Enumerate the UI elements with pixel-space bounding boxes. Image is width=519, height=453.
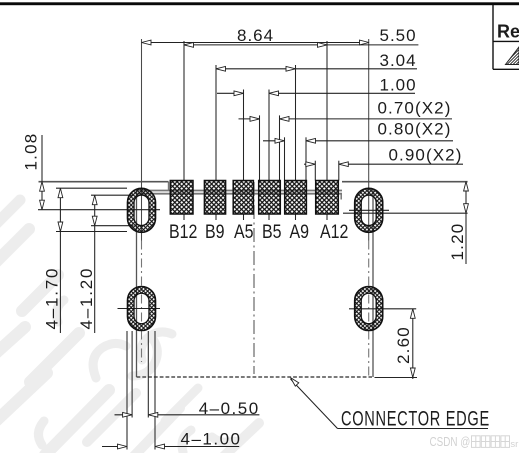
extension lines below lower-left hole — [127, 331, 155, 450]
pad A12 — [316, 181, 349, 243]
svg-text:A12: A12 — [320, 221, 348, 243]
svg-text:Rev: Rev — [497, 22, 519, 42]
pad A9 — [285, 181, 309, 243]
dimension 3.04 — [216, 51, 417, 71]
svg-text:4–1.70: 4–1.70 — [43, 267, 62, 330]
dimension 4-0.50 — [115, 399, 260, 418]
svg-text:3.04: 3.04 — [380, 51, 417, 70]
dimension 0.80(X2) — [263, 119, 453, 143]
dimension 1.00 — [217, 76, 417, 96]
svg-text:A9: A9 — [290, 221, 310, 243]
hole crosshair horizontals — [38, 210, 468, 309]
shield hole pad top-left — [128, 188, 156, 232]
top reference line — [39, 181, 468, 183]
dimension 0.90(X2) — [304, 145, 463, 166]
dimension 5.50 — [184, 26, 418, 47]
svg-text:2.60: 2.60 — [394, 326, 413, 364]
connector body right edge — [372, 190, 374, 377]
dimension 8.64 — [142, 26, 370, 45]
connector edge bottom dashed line — [137, 376, 373, 378]
shield hole pad bottom-left — [128, 287, 156, 331]
svg-text:CSDN @: CSDN @ — [430, 436, 471, 450]
dimension 4-1.20 — [77, 195, 134, 333]
extension lines above pads — [184, 41, 339, 181]
shield hole pad top-right — [355, 188, 383, 232]
svg-text:B12: B12 — [169, 221, 197, 243]
pad A5 — [233, 181, 254, 243]
svg-text:sr: sr — [510, 439, 518, 450]
dimension 1.20 — [448, 182, 469, 265]
svg-text:CONNECTOR EDGE: CONNECTOR EDGE — [341, 407, 490, 430]
leader CONNECTOR EDGE — [289, 376, 490, 430]
svg-text:1.00: 1.00 — [380, 76, 417, 95]
svg-text:1.08: 1.08 — [22, 133, 41, 171]
svg-text:0.70(X2): 0.70(X2) — [378, 98, 452, 117]
svg-text:A5: A5 — [234, 221, 254, 243]
title bar top border — [0, 2, 519, 5]
dimension 4-1.00 — [102, 429, 242, 449]
svg-text:5.50: 5.50 — [380, 26, 417, 45]
svg-text:B9: B9 — [205, 221, 225, 243]
extension line for 2.60 at bottom — [375, 377, 418, 379]
vertical symmetry centerline — [253, 182, 255, 374]
svg-text:1.20: 1.20 — [448, 223, 467, 261]
title block revision box — [493, 5, 519, 70]
dimension 0.70(X2) — [239, 98, 453, 121]
pad B5 — [259, 181, 282, 243]
connector body left edge — [136, 190, 138, 377]
dimension 1.08 — [22, 133, 45, 210]
pad B12 — [169, 181, 197, 243]
svg-text:B5: B5 — [262, 221, 282, 243]
svg-text:8.64: 8.64 — [237, 26, 274, 45]
connector body top edge (double line) — [137, 182, 343, 200]
centerline left holes — [141, 39, 143, 362]
svg-text:4–0.50: 4–0.50 — [199, 399, 260, 418]
shield hole pad bottom-right — [355, 287, 383, 331]
svg-text:4–1.20: 4–1.20 — [77, 267, 96, 330]
centerline right holes — [368, 39, 370, 378]
svg-text:4–1.00: 4–1.00 — [181, 429, 242, 448]
pad B9 — [204, 181, 225, 243]
pad centerline stubs below pads — [184, 215, 327, 221]
dimension 4-1.70 — [43, 188, 128, 333]
dimension 2.60 — [394, 309, 415, 379]
svg-text:0.80(X2): 0.80(X2) — [378, 119, 452, 138]
svg-text:0.90(X2): 0.90(X2) — [389, 145, 463, 164]
